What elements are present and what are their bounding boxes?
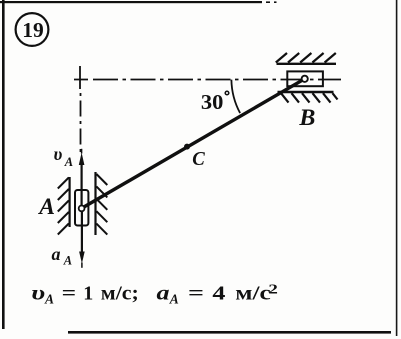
- svg-text:30: 30: [201, 90, 224, 114]
- guide A left rail: [68, 177, 70, 227]
- svg-text:A: A: [64, 155, 73, 169]
- horizontal dash-dot centerline: [74, 79, 341, 81]
- problem number circle 19: [16, 13, 49, 46]
- svg-text:1: 1: [83, 283, 93, 305]
- guide A right rail: [94, 172, 96, 235]
- vertical dash-dot centerline: [80, 93, 82, 152]
- velocity arrow vA (up): [80, 163, 82, 208]
- slider B top rail: [277, 63, 337, 65]
- formula line: [31, 282, 278, 307]
- pin B: [302, 76, 308, 82]
- frame top border: [0, 1, 262, 3]
- frame left border: [2, 0, 5, 329]
- svg-text:υ: υ: [31, 283, 45, 305]
- svg-text:19: 19: [22, 18, 44, 42]
- svg-text:A: A: [63, 253, 72, 267]
- slider B block: [287, 71, 323, 86]
- svg-text:C: C: [192, 148, 205, 170]
- svg-text:=: =: [62, 283, 76, 305]
- slider B top hatching: [276, 53, 336, 63]
- svg-text:B: B: [298, 105, 315, 130]
- slider B bottom rail: [278, 91, 334, 93]
- frame bottom border: [68, 331, 391, 334]
- svg-text:υ: υ: [54, 144, 63, 164]
- svg-text:м/с: м/с: [235, 283, 271, 305]
- svg-text:a: a: [52, 244, 61, 264]
- slider B bottom hatching: [281, 93, 338, 102]
- slider A block: [75, 190, 88, 226]
- svg-text:м/с;: м/с;: [101, 283, 139, 305]
- midpoint C dot: [184, 144, 190, 150]
- svg-text:2: 2: [268, 282, 278, 297]
- svg-text:4: 4: [212, 283, 225, 305]
- svg-text:A: A: [44, 292, 54, 307]
- centerline cross tick: [79, 66, 81, 89]
- svg-text:=: =: [188, 283, 204, 305]
- frame right border: [396, 0, 398, 336]
- acceleration arrow aA (down): [81, 208, 83, 254]
- rod AB: [82, 79, 305, 209]
- angle arc 30 deg: [231, 80, 240, 114]
- svg-text:A: A: [169, 292, 179, 307]
- guide A right hatching: [96, 174, 107, 235]
- svg-text:a: a: [157, 283, 170, 305]
- guide A left hatching: [58, 178, 69, 235]
- svg-text:A: A: [37, 194, 55, 220]
- pin A: [79, 206, 85, 212]
